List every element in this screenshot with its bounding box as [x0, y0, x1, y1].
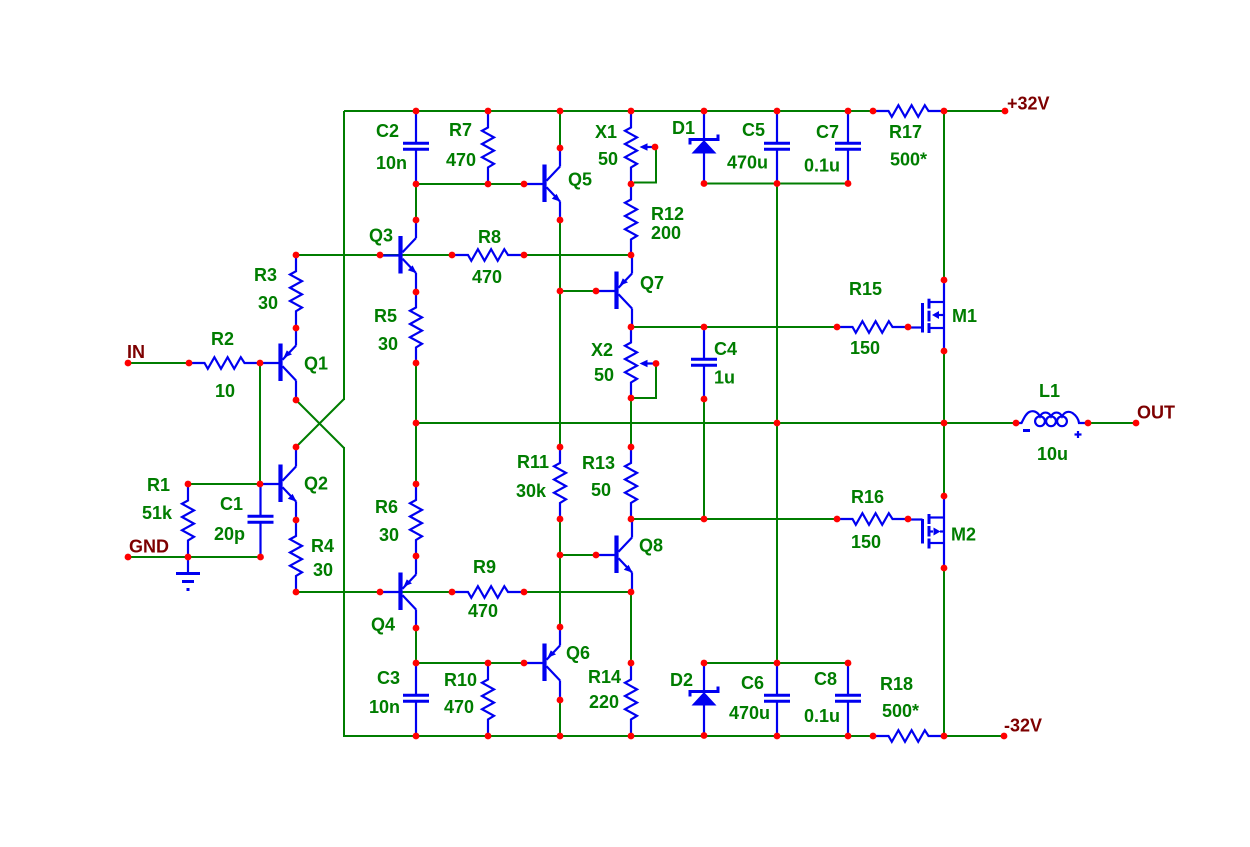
resistor R18 500* — [873, 730, 944, 742]
zener diode D2 — [690, 663, 718, 735]
junction dot (944,736) — [941, 733, 948, 740]
svg-text:50: 50 — [594, 365, 614, 385]
junction dot (452,255) — [449, 252, 456, 259]
capacitor C2 10n — [403, 111, 429, 184]
resistor R8 470 — [452, 249, 524, 261]
svg-text:X2: X2 — [591, 340, 613, 360]
svg-text:-32V: -32V — [1004, 716, 1042, 736]
junction dot (416,484) — [413, 481, 420, 488]
svg-text:0.1u: 0.1u — [804, 706, 840, 726]
wire X2 bottom to R13 top — [630, 398, 632, 447]
capacitor C7 0.1u — [835, 111, 861, 184]
junction dot (631,327) — [628, 324, 635, 331]
junction dot (596,291) — [593, 288, 600, 295]
svg-text:Q3: Q3 — [369, 226, 393, 246]
junction dot (777,423) — [774, 420, 781, 427]
junction dot (777,111) — [774, 108, 781, 115]
svg-text:10n: 10n — [376, 153, 407, 173]
wire Q8 emitter to R14 — [630, 592, 632, 663]
junction dot (416,628) — [413, 625, 420, 632]
junction dot (416,556) — [413, 553, 420, 560]
junction dot (416,363) — [413, 360, 420, 367]
junction dot (488,184) — [485, 181, 492, 188]
wire X1 wiper link — [634, 147, 656, 183]
svg-text:200: 200 — [651, 223, 681, 243]
junction dot (837,519) — [834, 516, 841, 523]
resistor R9 470 — [452, 586, 524, 598]
wire cross diagonal upper — [296, 399, 344, 447]
svg-text:C4: C4 — [714, 339, 737, 359]
wire node Q8/R16 y=519 — [631, 518, 837, 520]
junction dot (944,423) — [941, 420, 948, 427]
junction dot (380,592) — [377, 589, 384, 596]
junction dot (560,291) — [557, 288, 564, 295]
junction dot (416,663) — [413, 660, 420, 667]
svg-text:D1: D1 — [672, 118, 695, 138]
svg-text:L1: L1 — [1039, 381, 1060, 401]
junction dot (560,111) — [557, 108, 564, 115]
wire Q3 collector column — [415, 184, 417, 220]
junction dot (560,627) — [557, 624, 564, 631]
junction dot (296,255) — [293, 252, 300, 259]
wire bottom -32V rail — [344, 735, 873, 737]
junction dot (128,557) — [125, 554, 132, 561]
svg-text:R1: R1 — [147, 475, 170, 495]
junction dot (873,736) — [870, 733, 877, 740]
svg-text:R9: R9 — [473, 557, 496, 577]
resistor R11 30k — [554, 447, 566, 519]
svg-text:R4: R4 — [311, 536, 334, 556]
svg-text:R13: R13 — [582, 453, 615, 473]
junction dot (560,555) — [557, 552, 564, 559]
junction dot (631,519) — [628, 516, 635, 523]
wire L1 to OUT — [1088, 422, 1136, 424]
svg-text:R16: R16 — [851, 487, 884, 507]
svg-text:10n: 10n — [369, 697, 400, 717]
svg-text:R17: R17 — [889, 122, 922, 142]
junction dot (416,220) — [413, 217, 420, 224]
junction dot (296,447) — [293, 444, 300, 451]
svg-text:470: 470 — [468, 601, 498, 621]
junction dot (631,255) — [628, 252, 635, 259]
svg-text:500*: 500* — [890, 150, 927, 170]
junction dot (416,292) — [413, 289, 420, 296]
junction dot (873,111) — [870, 108, 877, 115]
junction dot (631,663) — [628, 660, 635, 667]
junction dot (560,220) — [557, 217, 564, 224]
resistor R1 51k — [182, 484, 194, 557]
junction dot (944,280) — [941, 277, 948, 284]
resistor R2 10 — [189, 357, 260, 369]
wire X2 wiper link — [632, 364, 656, 399]
wire R3 to Q3 base, through bar — [296, 254, 452, 256]
inductor L1 10u — [1016, 411, 1088, 438]
junction dot (560,736) — [557, 733, 564, 740]
junction dot (296,520) — [293, 517, 300, 524]
resistor R5 30 — [410, 292, 422, 363]
svg-text:C5: C5 — [742, 120, 765, 140]
trimmer X2 50 — [625, 327, 656, 398]
svg-text:R5: R5 — [374, 306, 397, 326]
wire R11 bottom to Q6 emitter — [559, 519, 561, 627]
transistor Q3 — [380, 220, 417, 292]
capacitor C5 470u — [764, 111, 790, 184]
svg-text:R18: R18 — [880, 674, 913, 694]
wire R5 to R6 column — [415, 363, 417, 484]
svg-text:30k: 30k — [516, 481, 547, 501]
junction dot (631,398) — [628, 395, 635, 402]
junction dot (189,363) — [186, 360, 193, 367]
wire R9 to Q8 emitter — [524, 591, 631, 593]
svg-text:150: 150 — [850, 338, 880, 358]
svg-text:+32V: +32V — [1007, 94, 1050, 114]
junction dot (260,484) — [257, 481, 264, 488]
zener diode D1 — [690, 111, 718, 184]
transistor Q6 — [524, 627, 560, 700]
junction dot (380,255) — [377, 252, 384, 259]
wire left loop vertical lower — [343, 447, 345, 737]
svg-text:R8: R8 — [478, 227, 501, 247]
junction dot (704,735.5) — [701, 732, 708, 739]
resistor R15 150 — [837, 321, 908, 333]
resistor R12 200 — [625, 184, 637, 255]
svg-text:0.1u: 0.1u — [804, 156, 840, 176]
mosfet M2 — [908, 496, 944, 568]
svg-text:10u: 10u — [1037, 444, 1068, 464]
wire R8 to R12 bottom — [524, 254, 631, 256]
junction dot (704,111) — [701, 108, 708, 115]
svg-text:20p: 20p — [214, 524, 245, 544]
junction dot (488,736) — [485, 733, 492, 740]
junction dot (655,147) — [652, 144, 659, 151]
wire C3 to Q6 base — [416, 662, 524, 664]
wire R4 to Q4 base, through bar — [296, 591, 452, 593]
junction dot (560,447) — [557, 444, 564, 451]
junction dot (1005,111) — [1002, 108, 1009, 115]
junction dot (848,736) — [845, 733, 852, 740]
transistor Q1 — [260, 328, 296, 400]
svg-text:470: 470 — [444, 697, 474, 717]
ground symbol — [176, 557, 200, 590]
junction dot (704,399) — [701, 396, 708, 403]
wire Q7 base stub — [560, 290, 596, 292]
junction dot (296,328) — [293, 325, 300, 332]
svg-text:R14: R14 — [588, 667, 621, 687]
junction dot (488,111) — [485, 108, 492, 115]
junction dot (524,592) — [521, 589, 528, 596]
junction dot (416,111) — [413, 108, 420, 115]
junction dot (1016,423) — [1013, 420, 1020, 427]
junction dot (631,111) — [628, 108, 635, 115]
svg-text:220: 220 — [589, 692, 619, 712]
svg-text:Q1: Q1 — [304, 354, 328, 374]
svg-text:Q5: Q5 — [568, 170, 592, 190]
svg-text:C8: C8 — [814, 669, 837, 689]
junction dot (908,327) — [905, 324, 912, 331]
junction dot (188,557) — [185, 554, 192, 561]
wire node Q7/C4/R15 y=327 — [631, 326, 837, 328]
wire C5 mid column lower — [776, 423, 778, 663]
resistor R6 30 — [410, 484, 422, 556]
resistor R4 30 — [290, 520, 302, 592]
svg-text:50: 50 — [598, 149, 618, 169]
svg-text:Q6: Q6 — [566, 643, 590, 663]
capacitor C4 1u — [691, 327, 717, 399]
junction dot (944,568) — [941, 565, 948, 572]
junction dot (777,736) — [774, 733, 781, 740]
svg-text:R15: R15 — [849, 279, 882, 299]
transistor Q4 — [380, 556, 416, 628]
junction dot (908,519) — [905, 516, 912, 523]
svg-text:Q7: Q7 — [640, 273, 664, 293]
svg-text:R3: R3 — [254, 265, 277, 285]
junction dot (704,519) — [701, 516, 708, 523]
svg-text:R11: R11 — [517, 452, 549, 472]
junction dot (488,663) — [485, 660, 492, 667]
junction dot (631,184) — [628, 181, 635, 188]
svg-text:51k: 51k — [142, 503, 173, 523]
wire M1 source to M2 source — [943, 351, 945, 496]
svg-text:10: 10 — [215, 381, 235, 401]
capacitor C1 20p — [248, 484, 274, 557]
svg-text:470: 470 — [446, 150, 476, 170]
junction dot (777,663) — [774, 660, 781, 667]
svg-text:C7: C7 — [816, 122, 839, 142]
junction dot (704,663) — [701, 660, 708, 667]
junction dot (704,327) — [701, 324, 708, 331]
junction dot (560,700) — [557, 697, 564, 704]
junction dot (560,148) — [557, 145, 564, 152]
junction dot (631,736) — [628, 733, 635, 740]
svg-text:Q8: Q8 — [639, 536, 663, 556]
svg-text:D2: D2 — [670, 670, 693, 690]
wire Q6 collector to rail — [559, 700, 561, 736]
svg-text:X1: X1 — [595, 122, 617, 142]
wire Q1 base column down — [259, 363, 261, 484]
wire GND rail — [128, 556, 260, 558]
junction dot (416,736) — [413, 733, 420, 740]
svg-text:M2: M2 — [951, 525, 976, 545]
junction dot (452,592) — [449, 589, 456, 596]
junction dot (524,184) — [521, 181, 528, 188]
junction dot (416,423) — [413, 420, 420, 427]
resistor R13 50 — [625, 447, 637, 519]
svg-text:30: 30 — [258, 293, 278, 313]
svg-text:Q4: Q4 — [371, 615, 395, 635]
junction dot (848,663) — [845, 660, 852, 667]
wire C5 mid column upper — [776, 184, 778, 424]
wire +32V to M1 drain — [943, 111, 945, 280]
transistor Q8 — [596, 519, 633, 592]
svg-text:R7: R7 — [449, 120, 472, 140]
wire C2 to Q5 base — [416, 183, 524, 185]
wire D2 to C8 top — [704, 662, 848, 664]
junction dot (524,663) — [521, 660, 528, 667]
svg-text:C1: C1 — [220, 494, 243, 514]
svg-text:C2: C2 — [376, 121, 399, 141]
wire Q8 base stub — [560, 554, 596, 556]
junction dot (188,484) — [185, 481, 192, 488]
wire M2 drain to -32V — [943, 568, 945, 736]
svg-text:IN: IN — [127, 342, 145, 362]
junction dot (944,496) — [941, 493, 948, 500]
junction dot (777,183.5) — [774, 180, 781, 187]
transistor Q2 — [260, 447, 297, 520]
wire output mid rail — [416, 422, 1016, 424]
junction dot (416,184) — [413, 181, 420, 188]
svg-text:GND: GND — [129, 537, 169, 557]
svg-text:R2: R2 — [211, 329, 234, 349]
wire top rail right segment — [944, 110, 1005, 112]
junction dot (944,111) — [941, 108, 948, 115]
junction dot (944,351) — [941, 348, 948, 355]
capacitor C6 470u — [764, 663, 790, 736]
junction dot (560,519) — [557, 516, 564, 523]
svg-text:C3: C3 — [377, 668, 400, 688]
transistor Q7 — [596, 255, 632, 327]
junction dot (260,363) — [257, 360, 264, 367]
wire Q5 collector to rail — [559, 111, 561, 148]
wire top +32V rail — [344, 110, 873, 112]
svg-text:470u: 470u — [727, 153, 768, 173]
wire Q5 emitter to R11 top — [559, 220, 561, 447]
svg-text:30: 30 — [313, 560, 333, 580]
svg-text:30: 30 — [378, 334, 398, 354]
junction dot (296,592) — [293, 589, 300, 596]
svg-text:150: 150 — [851, 532, 881, 552]
resistor R7 470 — [482, 111, 494, 184]
wire cross diagonal lower — [296, 400, 344, 448]
junction dot (524,255) — [521, 252, 528, 259]
junction dot (1004,736) — [1001, 733, 1008, 740]
junction dot (848,111) — [845, 108, 852, 115]
junction dot (848,183.5) — [845, 180, 852, 187]
trimmer X1 50 — [625, 111, 656, 184]
resistor R16 150 — [837, 513, 908, 525]
junction dot (596,555) — [593, 552, 600, 559]
junction dot (1088,423) — [1085, 420, 1092, 427]
svg-text:R12: R12 — [651, 204, 684, 224]
wire R1 to Q2 base — [188, 483, 260, 485]
junction dot (704,183.5) — [701, 180, 708, 187]
resistor R14 220 — [625, 663, 637, 736]
wire C4 bottom column — [703, 399, 705, 519]
transistor Q5 — [524, 148, 561, 220]
svg-text:C6: C6 — [741, 673, 764, 693]
mosfet M1 — [908, 280, 944, 351]
svg-text:470u: 470u — [729, 703, 770, 723]
junction dot (260.5,557) — [257, 554, 264, 561]
junction dot (837,327) — [834, 324, 841, 331]
resistor R17 500* — [873, 105, 944, 117]
capacitor C3 10n — [403, 663, 429, 736]
svg-text:R6: R6 — [375, 497, 398, 517]
junction dot (656,363.5) — [653, 360, 660, 367]
resistor R10 470 — [482, 663, 494, 736]
junction dot (631,447) — [628, 444, 635, 451]
svg-text:R10: R10 — [444, 670, 477, 690]
wire D1 to C7 bottom — [704, 183, 848, 185]
wire left loop vertical upper — [343, 111, 345, 400]
capacitor C8 0.1u — [835, 663, 861, 736]
resistor R3 30 — [290, 255, 302, 328]
junction dot (296,400) — [293, 397, 300, 404]
svg-text:470: 470 — [472, 267, 502, 287]
junction dot (1136,423) — [1133, 420, 1140, 427]
wire IN to R2 — [128, 362, 189, 364]
svg-text:30: 30 — [379, 525, 399, 545]
junction dot (128,363) — [125, 360, 132, 367]
svg-text:OUT: OUT — [1137, 403, 1175, 423]
svg-text:Q2: Q2 — [304, 474, 328, 494]
svg-text:50: 50 — [591, 480, 611, 500]
svg-text:1u: 1u — [714, 368, 735, 388]
svg-text:M1: M1 — [952, 306, 977, 326]
svg-text:500*: 500* — [882, 701, 919, 721]
wire Q4 collector to C3 — [415, 628, 417, 663]
junction dot (631,592) — [628, 589, 635, 596]
wire bottom rail right segment — [944, 735, 1004, 737]
